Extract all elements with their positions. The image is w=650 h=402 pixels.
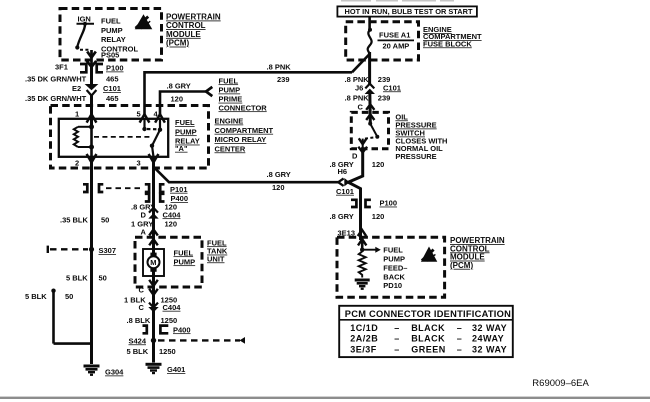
svg-text:S307: S307: [99, 246, 117, 255]
svg-text:C: C: [139, 286, 145, 295]
ESD warning triangle (feedback): [421, 247, 437, 262]
svg-text:50: 50: [99, 273, 107, 282]
svg-text:2A/2B: 2A/2B: [350, 334, 378, 344]
table row 2: [350, 334, 504, 344]
svg-text:C101: C101: [336, 187, 354, 196]
svg-text:CONTROL: CONTROL: [166, 21, 206, 30]
svg-text:5: 5: [137, 110, 141, 119]
svg-text:239: 239: [378, 94, 391, 103]
svg-text:A: A: [141, 227, 147, 236]
svg-text:P100: P100: [380, 199, 398, 208]
connector C404 (D/A): [148, 208, 158, 219]
arrow at fuel tank unit entry: [149, 229, 158, 235]
hot in run box: [337, 6, 477, 16]
svg-text:FUSE BLOCK: FUSE BLOCK: [423, 39, 472, 48]
ground G304: [84, 366, 100, 375]
splice S307: [89, 247, 94, 252]
svg-text:C: C: [358, 103, 364, 112]
node with sense arrow: [360, 248, 364, 252]
svg-text:P100: P100: [106, 64, 124, 73]
label FUEL TANK UNIT: [207, 238, 228, 263]
svg-text:120: 120: [372, 212, 385, 221]
svg-text:COMPARTMENT: COMPARTMENT: [215, 126, 274, 135]
svg-text:.35 BLK: .35 BLK: [60, 216, 89, 225]
svg-text:.8 GRY: .8 GRY: [267, 170, 291, 179]
relay armature dashed link: [94, 136, 150, 138]
relay switch: [142, 119, 162, 157]
label FUEL PUMP PRIME CONNECTOR: [219, 76, 268, 112]
svg-text:3F1: 3F1: [55, 63, 68, 72]
svg-text:G401: G401: [167, 365, 185, 374]
svg-text:BACK: BACK: [383, 272, 405, 281]
svg-text:C404: C404: [163, 210, 182, 219]
connector body dashed link P101: [106, 187, 141, 189]
svg-text:FEED–: FEED–: [383, 263, 407, 272]
oil pressure switch box (dashed): [351, 112, 388, 148]
svg-text:FUEL: FUEL: [101, 17, 121, 26]
svg-text:.8 GRY: .8 GRY: [167, 82, 191, 91]
page bottom rule: [0, 397, 650, 399]
svg-text:.8 PNK: .8 PNK: [345, 94, 370, 103]
svg-text:MODULE: MODULE: [166, 30, 201, 39]
svg-text:P400: P400: [173, 325, 191, 334]
wire J6 to OPS: [368, 92, 372, 123]
svg-text:–: –: [457, 334, 463, 344]
svg-text:C404: C404: [163, 303, 182, 312]
connector C404 (C): [148, 303, 158, 313]
arrow out of PCM box: [87, 50, 96, 67]
svg-text:BLACK: BLACK: [411, 334, 445, 344]
svg-text:"A": "A": [175, 144, 188, 153]
svg-text:CENTER: CENTER: [215, 144, 246, 153]
svg-text:–: –: [457, 323, 463, 333]
svg-text:G304: G304: [105, 368, 124, 377]
svg-text:J6: J6: [355, 83, 363, 92]
svg-text:120: 120: [165, 219, 178, 228]
svg-text:S424: S424: [128, 336, 146, 345]
svg-text:1250: 1250: [159, 347, 176, 356]
svg-text:32 WAY: 32 WAY: [472, 323, 507, 333]
fuse A1 element: [368, 28, 372, 56]
arrow inside OPS: [366, 114, 374, 120]
arrow to OPS exit: [359, 138, 367, 144]
label ENGINE COMPARTMENT MICRO RELAY CENTER: [215, 117, 274, 154]
wire fuse down to J6: [368, 52, 371, 85]
svg-text:239: 239: [277, 75, 290, 84]
connector P101 right half (pin3 wire): [145, 184, 165, 192]
svg-text:.8 PNK: .8 PNK: [267, 63, 292, 72]
svg-text:H6: H6: [338, 167, 348, 176]
svg-text:C101: C101: [103, 84, 121, 93]
svg-text:32 WAY: 32 WAY: [472, 344, 507, 354]
svg-text:FUEL: FUEL: [174, 248, 194, 257]
fuel pump relay inner box: [59, 119, 168, 157]
connector P400 (below FTU): [143, 326, 169, 334]
label ENGINE COMPARTMENT FUSE BLOCK: [423, 25, 482, 48]
svg-text:PD10: PD10: [383, 281, 402, 290]
svg-text:3E/3F: 3E/3F: [350, 344, 377, 354]
relay coil: [74, 119, 94, 157]
svg-text:PUMP: PUMP: [174, 257, 196, 266]
connector P100 (right): [351, 200, 371, 207]
svg-text:1: 1: [75, 110, 79, 119]
svg-text:1C/1D: 1C/1D: [350, 323, 378, 333]
table row 3: [350, 344, 507, 354]
svg-text:.8 GRY: .8 GRY: [330, 212, 354, 221]
top page-edge text remnant: [341, 0, 454, 2]
wire .8 pnk horizontal: [145, 72, 353, 115]
ESD warning triangle (PCM): [135, 14, 153, 29]
svg-text:1250: 1250: [161, 316, 178, 325]
arrow into OPS: [366, 104, 374, 109]
svg-text:BLACK: BLACK: [411, 323, 445, 333]
wire fuse diagonal to pnk run: [352, 54, 370, 72]
svg-text:–: –: [457, 344, 463, 354]
svg-text:50: 50: [65, 292, 73, 301]
svg-text:50: 50: [101, 216, 109, 225]
wire .8 gry prime connector: [160, 92, 207, 116]
powertrain control module box (top-left, dashed): [60, 9, 162, 61]
svg-text:M: M: [150, 258, 156, 267]
svg-text:120: 120: [272, 183, 285, 192]
svg-text:RELAY: RELAY: [101, 35, 126, 44]
connector P100 (3F1): [80, 64, 103, 72]
svg-text:.8 BLK: .8 BLK: [127, 316, 151, 325]
svg-text:20 AMP: 20 AMP: [383, 42, 410, 51]
svg-text:–: –: [394, 334, 400, 344]
oil pressure switch contacts: [363, 122, 380, 152]
ground G401: [146, 364, 162, 373]
svg-text:2: 2: [75, 159, 79, 168]
label POWERTRAIN CONTROL MODULE (PCM): [166, 13, 221, 48]
engine compartment fuse block box (dashed): [346, 22, 419, 60]
arrow into feedback box: [358, 230, 366, 236]
svg-text:CONNECTOR: CONNECTOR: [219, 103, 268, 112]
svg-text:–: –: [394, 323, 400, 333]
svg-text:FUEL: FUEL: [383, 246, 403, 255]
resistor (feedback): [359, 252, 366, 278]
arrow FTU exit: [149, 280, 158, 286]
label FUEL PUMP RELAY CONTROL PS05: [101, 17, 138, 60]
svg-text:5 BLK: 5 BLK: [25, 292, 47, 301]
svg-text:UNIT: UNIT: [207, 254, 225, 263]
svg-text:C: C: [139, 303, 145, 312]
connector C101 (J6): [365, 84, 375, 94]
splice S424: [151, 338, 156, 343]
branch wire to G304: [51, 289, 91, 344]
wire PCM to C101: [90, 67, 93, 85]
arrow below FTU: [149, 289, 158, 295]
wire C101 to relay pin 1: [90, 94, 93, 127]
connector P101 left half (pin2 wire): [83, 184, 103, 192]
fuel pump prime connector terminal: [206, 87, 212, 96]
svg-text:FUEL: FUEL: [175, 118, 195, 127]
table row 1: [350, 323, 507, 333]
svg-text:465: 465: [106, 94, 119, 103]
svg-text:.35 DK GRN/WHT: .35 DK GRN/WHT: [25, 94, 87, 103]
svg-text:5 BLK: 5 BLK: [127, 347, 149, 356]
svg-text:PUMP: PUMP: [383, 255, 405, 264]
svg-text:GREEN: GREEN: [411, 344, 446, 354]
svg-text:E2: E2: [72, 84, 81, 93]
label POWERTRAIN CONTROL MODULE (PCM) (right): [450, 236, 505, 270]
svg-text:120: 120: [372, 160, 385, 169]
connector P400 (pin3 wire): [145, 194, 165, 202]
svg-text:120: 120: [171, 95, 184, 104]
wire pin3 diagonal to gry run: [154, 167, 339, 182]
powertrain control module box (feedback, dashed): [337, 237, 445, 297]
arrow inside feedback box: [358, 239, 366, 245]
engine compartment micro relay center box (dashed): [51, 106, 209, 169]
arrow inside FTU: [149, 239, 158, 245]
label OIL PRESSURE SWITCH CLOSES WITH NORMAL OIL PRESSURE: [395, 112, 447, 161]
label FUEL PUMP RELAY "A": [175, 118, 200, 153]
svg-text:PS05: PS05: [101, 51, 119, 60]
svg-text:5 BLK: 5 BLK: [66, 273, 88, 282]
svg-text:C101: C101: [383, 83, 401, 92]
svg-text:PCM CONNECTOR IDENTIFICATION: PCM CONNECTOR IDENTIFICATION: [345, 309, 511, 319]
svg-text:3: 3: [137, 159, 141, 168]
svg-text:(PCM): (PCM): [450, 261, 473, 270]
svg-text:PUMP: PUMP: [101, 26, 123, 35]
svg-text:PUMP: PUMP: [175, 127, 197, 136]
wire into feedback resistor: [361, 237, 364, 252]
svg-text:FUEL: FUEL: [219, 76, 239, 85]
wire motor down to G401: [152, 270, 155, 363]
svg-text:.35 DK GRN/WHT: .35 DK GRN/WHT: [25, 75, 87, 84]
fuel pump motor: [143, 249, 164, 276]
svg-text:24WAY: 24WAY: [472, 334, 504, 344]
svg-text:P101: P101: [170, 185, 188, 194]
fuel tank unit box (dashed): [135, 237, 202, 287]
svg-text:R69009–6EA: R69009–6EA: [532, 378, 589, 389]
svg-text:POWERTRAIN: POWERTRAIN: [166, 13, 221, 22]
svg-text:FUSE A1: FUSE A1: [379, 31, 410, 40]
arrow at OPS bottom edge: [358, 147, 367, 153]
label FUEL PUMP (inside): [174, 248, 196, 266]
svg-text:PUMP: PUMP: [219, 86, 241, 95]
ignition switch: [75, 22, 94, 50]
wire relay pin2 down to ground run: [90, 157, 93, 365]
wire relay pin3 down: [152, 157, 155, 255]
svg-text:–: –: [394, 344, 400, 354]
svg-text:PRESSURE: PRESSURE: [395, 152, 436, 161]
svg-text:MICRO RELAY: MICRO RELAY: [215, 135, 267, 144]
connector C101 (H6): [338, 178, 350, 186]
ground (feedback internal): [355, 280, 370, 289]
wire hot box to fuse: [368, 17, 371, 29]
PCM connector identification table: [339, 306, 513, 357]
connector C101 (E2): [85, 84, 99, 96]
svg-text:D: D: [141, 210, 147, 219]
svg-text:HOT IN RUN, BULB TEST OR STAR: HOT IN RUN, BULB TEST OR START: [345, 7, 473, 16]
label FUEL PUMP FEED- BACK PD10: [383, 246, 407, 291]
svg-text:465: 465: [106, 75, 119, 84]
svg-text:ENGINE: ENGINE: [215, 117, 244, 126]
wire OPS to C101 H6 junction: [348, 152, 363, 240]
svg-text:(PCM): (PCM): [166, 39, 189, 48]
